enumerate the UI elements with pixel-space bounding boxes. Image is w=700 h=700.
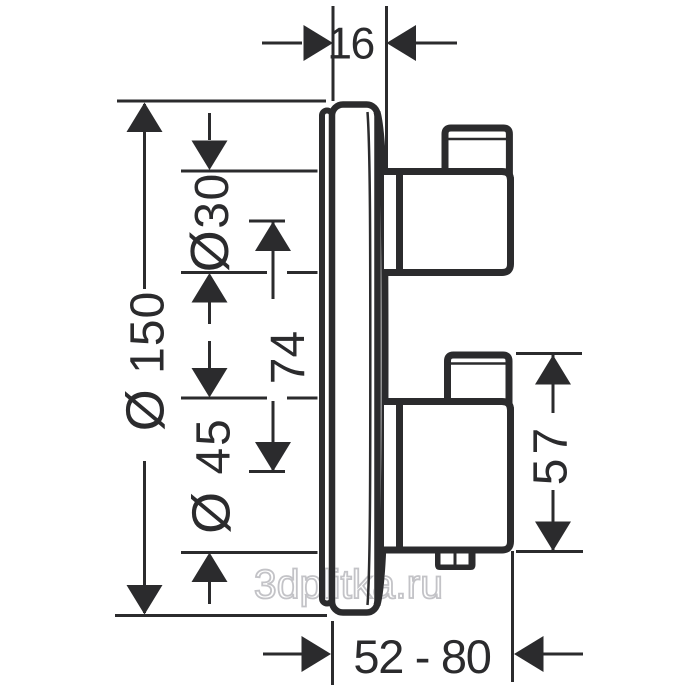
dim16 left extension line <box>332 6 335 101</box>
top knob cap <box>445 128 509 175</box>
svg-text:Ø 45: Ø 45 <box>182 417 242 534</box>
arrow dim45 down <box>192 368 228 398</box>
dim16 right extension line <box>385 6 388 168</box>
dim5280 right extension <box>511 551 514 682</box>
dim57 lower segment <box>552 490 555 550</box>
svg-text:74: 74 <box>262 331 315 384</box>
dim150 extension top <box>117 100 326 103</box>
top knob top edge redraw <box>384 172 511 181</box>
bottom knob inner vertical line <box>396 398 403 554</box>
arrow dim150 down <box>127 585 163 615</box>
escutcheon back plate (wall side, stadium outline) <box>322 111 332 604</box>
dim57 extension bottom <box>516 550 583 553</box>
svg-text:Ø30: Ø30 <box>180 172 240 272</box>
dim30 bottom tail <box>208 302 211 324</box>
svg-text:Ø 150: Ø 150 <box>116 291 176 431</box>
dim45 extension bottom <box>181 551 318 554</box>
dim45 extension top right <box>287 397 318 400</box>
arrow dim57 down <box>535 522 571 552</box>
svg-text:16: 16 <box>327 20 374 69</box>
dim30 extension bottom left <box>181 271 267 274</box>
thermostat handle body (top knob) <box>384 172 511 273</box>
dim45 bottom tail <box>208 582 211 604</box>
arrow dim30 down <box>192 141 228 171</box>
dim45 top tail <box>208 341 211 368</box>
svg-text:52 - 80: 52 - 80 <box>353 630 490 683</box>
arrow dim150 up <box>127 103 163 133</box>
dim150 line lower segment <box>143 461 146 613</box>
arrow dim45 up <box>192 553 228 583</box>
diverter tab under bottom knob <box>435 547 476 570</box>
bottom knob top edge redraw <box>384 402 511 411</box>
dim5280 left extension <box>331 621 334 685</box>
dim30 extension bottom right <box>287 271 318 274</box>
arrow dim74 up <box>255 222 291 252</box>
dim16 left tail <box>262 42 302 45</box>
dim30 extension top <box>181 170 318 173</box>
front face inner parting line <box>368 112 371 605</box>
bottom cap parting line <box>447 362 510 365</box>
dim150 extension bottom <box>115 614 327 617</box>
arrow dim16 right <box>387 25 417 61</box>
arrow dim16 left <box>304 25 334 61</box>
bottom knob cap <box>448 355 510 405</box>
svg-text:57: 57 <box>525 424 578 485</box>
arrow dim74 down <box>255 442 291 472</box>
dim45 extension top left <box>181 397 267 400</box>
top knob inner vertical line <box>396 168 403 276</box>
dim57 extension top <box>516 352 582 355</box>
front face bulge curve <box>377 112 385 605</box>
escutcheon front plate (rounded rect) <box>332 105 378 613</box>
dim74 upper segment <box>272 222 275 300</box>
dim74 extension top <box>249 220 285 223</box>
dim30 top tail <box>208 113 211 140</box>
arrow dim5280 left-pointing <box>514 636 544 672</box>
dim74 lower segment <box>272 401 275 471</box>
dim5280 left tail <box>263 653 302 656</box>
arrow dim5280 right-pointing <box>302 636 332 672</box>
dim16 right tail <box>416 42 457 45</box>
arrow dim57 up <box>535 355 571 385</box>
top cap parting line <box>444 138 510 141</box>
volume handle body (bottom knob) <box>384 402 511 551</box>
dim150 line upper segment <box>143 104 146 289</box>
dim57 upper segment <box>552 355 555 413</box>
dim74 extension bottom <box>249 470 285 473</box>
arrow dim30 up <box>192 273 228 303</box>
svg-text:3dplitka.ru: 3dplitka.ru <box>254 561 443 607</box>
dim5280 right tail <box>543 653 583 656</box>
